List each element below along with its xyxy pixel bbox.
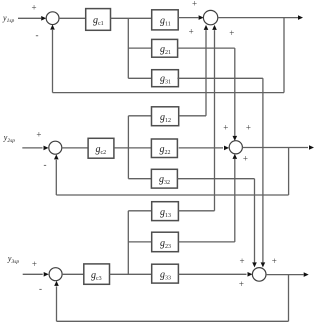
wire row2 feedback up arrow into C2 (54, 154, 59, 195)
summing junction C3 (49, 268, 62, 281)
wire g12 output horizontal (179, 115, 206, 117)
block g23 (152, 232, 179, 252)
svg-text:-: - (44, 160, 47, 170)
svg-text:+: + (229, 28, 234, 38)
node y2sp label (3, 133, 15, 144)
sign + bottom-left S3 (239, 279, 244, 289)
wire branch to g32 (128, 178, 151, 180)
svg-text:+: + (192, 0, 197, 9)
wire branch to g21 (128, 47, 151, 49)
sign + bottom-right S2 (243, 153, 248, 163)
wire row3 branch vertical (127, 211, 129, 274)
block g32 (151, 169, 177, 188)
svg-text:y2sp: y2sp (3, 133, 15, 144)
summing junction S1 (203, 10, 217, 24)
wire g22 to S2 with arrow (179, 146, 229, 151)
wire S1 output with arrow (218, 15, 303, 20)
wire S2 output with arrow (242, 145, 314, 150)
node y3sp label (7, 254, 19, 265)
svg-text:+: + (272, 256, 277, 266)
summing junction S3 (252, 268, 266, 282)
block g13 (152, 202, 179, 221)
wire row2 feedback down branch (288, 147, 290, 195)
block gc2 (88, 138, 114, 158)
wire g23 output horizontal (178, 241, 234, 243)
block g21 (152, 39, 178, 57)
svg-text:+: + (239, 279, 244, 289)
svg-text:gc1: gc1 (93, 15, 104, 27)
sign - at C2 feedback (44, 160, 47, 170)
svg-text:+: + (240, 256, 245, 266)
block g12 (152, 107, 179, 126)
wire row1 feedback down branch (283, 18, 285, 93)
wire g31 output horizontal (177, 77, 263, 79)
wire g33 to S3 with arrow (178, 272, 252, 277)
block gc1 (86, 9, 111, 31)
svg-text:g22: g22 (160, 144, 171, 156)
wire row2 feedback horizontal (56, 194, 288, 196)
svg-text:g11: g11 (160, 15, 171, 27)
wire row1 branch vertical (127, 18, 129, 78)
wire branch to g13 (128, 210, 151, 212)
svg-text:+: + (189, 27, 194, 37)
sign + below-right S1 (229, 28, 234, 38)
wire g13 up into S1 with arrow (212, 25, 217, 211)
svg-text:-: - (36, 30, 39, 40)
svg-text:+: + (32, 3, 37, 13)
svg-text:y3sp: y3sp (7, 254, 19, 265)
wire C2 to gc2 (62, 147, 88, 149)
sign + above S1 (192, 0, 197, 9)
wire row2 branch vertical (127, 116, 129, 179)
summing junction C2 (49, 141, 62, 154)
wire g11 to S1 with arrow (177, 15, 203, 20)
svg-text:+: + (36, 130, 41, 140)
wire gc1 to g11 (111, 17, 152, 19)
wire row1 feedback horizontal (53, 92, 285, 94)
svg-text:g33: g33 (160, 270, 171, 282)
svg-text:+: + (223, 122, 228, 132)
wire g13 output horizontal (178, 210, 214, 212)
block g33 (152, 264, 179, 283)
wire y2sp input arrow (22, 146, 48, 151)
wire g32 down into S3 with arrow (252, 179, 257, 268)
summing junction C1 (46, 12, 59, 25)
svg-text:gc2: gc2 (96, 144, 107, 156)
sign + top-right S3 (272, 256, 277, 266)
svg-text:g31: g31 (160, 74, 171, 86)
block g31 (152, 70, 179, 87)
svg-text:g12: g12 (160, 112, 171, 124)
wire row3 feedback horizontal (57, 320, 289, 322)
node y1sp label (2, 13, 14, 24)
sign + top-left S3 (240, 256, 245, 266)
wire g23 up into S2 with arrow (233, 154, 238, 242)
wire branch to g31 (128, 77, 151, 79)
wire g12 up into S1 with arrow (204, 25, 209, 116)
svg-text:+: + (246, 122, 251, 132)
sign + top-left S2 (223, 122, 228, 132)
sign + at C3 input (32, 259, 37, 269)
wire y1sp input arrow (18, 16, 46, 21)
wire branch to g12 (128, 115, 151, 117)
wire g21 down into S2 with arrow (233, 48, 238, 141)
svg-text:g32: g32 (159, 174, 170, 186)
wire branch to g23 (128, 241, 151, 243)
svg-text:+: + (243, 153, 248, 163)
wire g21 output horizontal (177, 47, 234, 49)
sign + below-left S1 (189, 27, 194, 37)
svg-text:+: + (32, 259, 37, 269)
wire y3sp input arrow (23, 272, 49, 277)
wire gc3 to g33 (110, 273, 152, 275)
wire row3 feedback down branch (288, 275, 290, 322)
sign - at C1 feedback (36, 30, 39, 40)
svg-text:g21: g21 (160, 44, 171, 56)
svg-text:-: - (39, 284, 42, 294)
summing junction S2 (229, 141, 242, 154)
svg-text:y1sp: y1sp (2, 13, 14, 24)
wire g32 output horizontal (177, 178, 254, 180)
sign - at C3 feedback (39, 284, 42, 294)
svg-text:g23: g23 (160, 238, 171, 250)
wire g31 down into S3 with arrow (261, 78, 266, 267)
wire C1 to gc1 (59, 17, 86, 19)
wire row1 feedback up arrow into C1 (50, 25, 55, 93)
sign + top-right S2 (246, 122, 251, 132)
wire gc2 to g22 (114, 147, 152, 149)
sign + at C2 input (36, 130, 41, 140)
wire S3 output with arrow (266, 272, 309, 277)
block g22 (151, 139, 177, 158)
sign + at C1 input (32, 3, 37, 13)
block gc3 (84, 264, 110, 284)
block g11 (152, 10, 179, 30)
svg-text:g13: g13 (160, 207, 171, 219)
svg-text:gc3: gc3 (91, 270, 102, 282)
wire row3 feedback up arrow into C3 (54, 281, 59, 321)
wire C3 to gc3 (62, 273, 84, 275)
